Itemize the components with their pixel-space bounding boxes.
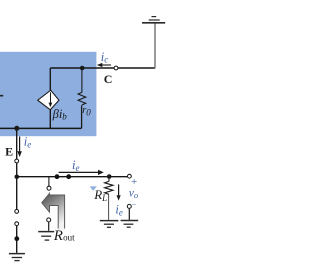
svg-text:+: + <box>131 176 137 188</box>
terminal circle lower <box>15 222 19 226</box>
wire dependent source branch bottom <box>49 110 51 129</box>
wire E down <box>16 128 18 159</box>
current arrow i_e at E <box>17 134 31 157</box>
label fragment r (left edge) <box>0 95 3 97</box>
ground bottom-left <box>9 254 25 261</box>
node C terminal circle <box>114 66 118 70</box>
svg-text:ie: ie <box>24 134 31 149</box>
current arrow i_e on output wire <box>59 158 104 175</box>
terminal circle upper <box>15 210 19 214</box>
svg-text:ie: ie <box>115 202 122 217</box>
svg-text:R: R <box>53 228 63 244</box>
resistor R_L <box>105 177 113 220</box>
annotation marker <box>90 186 97 190</box>
junction dot node E <box>14 126 19 131</box>
ground top-right <box>142 17 165 23</box>
ground below R_L <box>100 221 119 228</box>
svg-text:out: out <box>63 232 75 242</box>
svg-text:E: E <box>5 145 13 159</box>
svg-text:ic: ic <box>101 50 108 65</box>
wire dependent source branch top <box>49 68 51 90</box>
junction dot <box>14 236 19 241</box>
svg-text:−: − <box>132 200 137 209</box>
ground below v_o <box>121 221 139 228</box>
svg-text:RL: RL <box>93 187 107 203</box>
wire bottom emitter rail <box>0 127 81 129</box>
resistor r_o <box>78 68 86 128</box>
wire from output junction down to open terminal <box>16 177 18 210</box>
terminal circle v_o minus <box>127 204 131 208</box>
svg-text:vo: vo <box>129 188 138 201</box>
current arrow i_c <box>97 50 111 67</box>
wire top node C horizontal <box>50 67 155 69</box>
wire stub to ground <box>128 209 130 220</box>
junction dot top of r_o <box>80 66 85 71</box>
stub with terminal circle <box>48 177 50 186</box>
Rout direction arrow gray bent arrow <box>42 193 65 230</box>
junction dots on output wire <box>55 174 60 179</box>
output terminal circle <box>127 174 131 178</box>
transistor model shaded box <box>0 52 96 136</box>
terminal circle Rout <box>47 218 51 222</box>
junction dot <box>14 175 19 180</box>
svg-text:r0: r0 <box>82 105 91 117</box>
wire stub Rout ground <box>48 222 50 231</box>
terminal circle E <box>15 159 19 163</box>
arrow inside diamond <box>50 92 52 103</box>
wire to ground <box>16 226 18 253</box>
svg-text:C: C <box>104 72 113 86</box>
wire C vertical to ground <box>154 24 156 69</box>
svg-text:ie: ie <box>72 158 79 173</box>
dependent current source diamond <box>38 90 59 110</box>
current arrow i_e at R_L <box>115 184 122 217</box>
wire below E circle <box>16 163 18 175</box>
ground Rout <box>38 232 54 241</box>
junction dot R_L tap <box>107 174 112 179</box>
output wire horizontal <box>17 176 128 178</box>
